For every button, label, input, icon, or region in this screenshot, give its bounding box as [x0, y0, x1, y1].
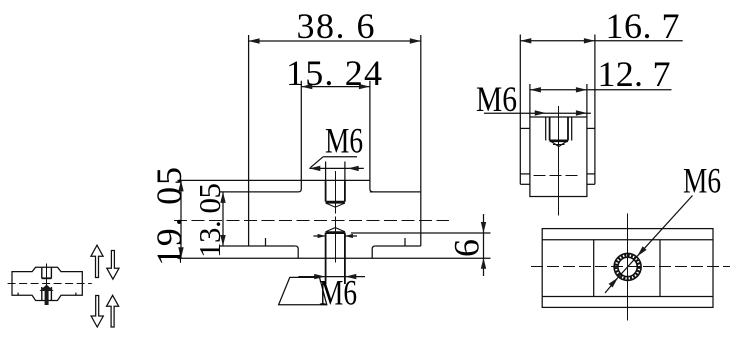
arrow 19.05 top: [178, 180, 183, 191]
bottom strip line: [542, 296, 713, 298]
M6 side left arrow: [535, 110, 546, 115]
12.7 extension / boss edges extended up: [529, 84, 531, 117]
bottom face long line (19.05 ext + boss bottom + 6 ext): [178, 257, 491, 259]
M6 leader upper arrow: [637, 246, 646, 256]
slab left outer edge (16.7 ext above): [519, 35, 521, 185]
arrow 15.24 right: [359, 84, 370, 89]
svg-text:12. 7: 12. 7: [598, 54, 671, 94]
bottom boss left edge with fillet: [295, 246, 298, 258]
svg-text:19. 05: 19. 05: [149, 167, 189, 266]
boss left edge (15.24 extension + fillet): [298, 81, 301, 192]
svg-text:M6: M6: [683, 161, 721, 200]
M6 leader lower tail: [605, 278, 618, 294]
M6 bottom right arrow: [345, 274, 356, 279]
dimension 12.7 line: [530, 89, 672, 91]
side hole drill cone: [550, 141, 568, 147]
M6 top leader slant: [310, 157, 323, 168]
arrow 13.05 top: [220, 192, 225, 203]
horizontal centerline dashed: [531, 266, 730, 268]
mini vertical centerline: [46, 264, 48, 302]
top strip line: [542, 239, 713, 241]
dimension 13.05 vertical line: [222, 192, 224, 246]
svg-text:M6: M6: [319, 273, 357, 312]
slab right outer edge (16.7 ext above): [594, 35, 596, 185]
part outline: slab top left (13.05 extension + slab top): [220, 191, 299, 193]
M6 side right arrow: [576, 110, 587, 115]
slab lip lines: [520, 173, 530, 175]
lip tick left: [265, 238, 267, 246]
top hole centerline: [335, 171, 337, 214]
tapped hole outer circle: [614, 253, 641, 280]
bottom tapped hole M6 (edges extended below part as dim extension): [326, 233, 345, 284]
tapped hole thread texture ring: [616, 255, 639, 278]
arrow 16.7 left: [520, 38, 531, 43]
M6 top dim line: [309, 167, 364, 169]
hollow arrow top-right (down): [107, 251, 119, 280]
bottom hole centerline: [335, 217, 337, 263]
svg-text:M6: M6: [325, 121, 363, 160]
svg-text:M6: M6: [476, 80, 517, 119]
dimension 6: extension line top: [351, 232, 491, 234]
arrow 6 top (outside, pointing down): [481, 222, 486, 233]
arrow 12.7 left: [530, 87, 541, 92]
side view vertical centerline: [558, 106, 560, 216]
svg-text:13. 05: 13. 05: [192, 183, 227, 258]
mini part outline: [12, 267, 82, 300]
M6 top hole extension lines: [325, 162, 327, 181]
part outline: slab top right: [370, 191, 421, 193]
arrow 13.05 bottom: [220, 235, 225, 246]
mini top hole: [41, 267, 43, 278]
arrow 16.7 right: [584, 38, 595, 43]
M6 bottom trapezoid flag: [279, 277, 327, 304]
M6 side leader line: [484, 112, 591, 114]
boss right edge (15.24 extension + fillet): [370, 81, 373, 192]
vertical centerline: [627, 214, 629, 321]
side view tapped hole: [545, 117, 547, 141]
M6 leader lower arrow: [609, 278, 618, 288]
arrow 12.7 right: [576, 87, 587, 92]
svg-text:6: 6: [447, 239, 487, 257]
M6 bottom dim line: [298, 276, 365, 278]
part outline: slab bottom left: [220, 245, 296, 247]
boss edge verticals: [593, 240, 595, 297]
tapped hole inner circle: [618, 257, 637, 276]
lip tick right: [404, 238, 406, 246]
part outline: slab bottom right: [375, 245, 421, 247]
slab bottom shoulders: [520, 183, 530, 185]
mini dashed centerline: [8, 283, 92, 285]
M6 top left arrow: [309, 166, 320, 171]
svg-text:16. 7: 16. 7: [606, 6, 680, 46]
bottom boss right edge with fillet: [372, 246, 375, 258]
hollow arrow bottom-right (up): [107, 295, 119, 327]
arrow 19.05 bottom: [178, 247, 183, 258]
dimension 19.05 vertical line: [180, 180, 182, 258]
mini bottom hole: [41, 287, 43, 301]
M6 top label underline: [323, 156, 357, 158]
arrow 38.6 right: [410, 38, 421, 43]
dimension 16.7 line: [520, 40, 682, 42]
main horizontal centerline (dashed): [174, 220, 449, 222]
top hole drill cone: [326, 203, 345, 207]
dimension 6: vertical dim line: [483, 214, 485, 276]
M6 bottom left arrow: [314, 274, 325, 279]
bottom hole small arrows: [314, 235, 326, 237]
M6 leader upper segment: [637, 196, 692, 257]
arrow 38.6 left: [249, 38, 260, 43]
bottom hole drill cone: [326, 228, 345, 232]
hollow arrow top-left (up): [91, 245, 103, 277]
part outline: top face line (19.05 extension + boss top): [178, 179, 370, 181]
top tapped hole M6: [326, 180, 345, 201]
hollow arrow bottom-left (down): [91, 296, 103, 328]
part outline: left edge (with 38.6 extension above): [248, 35, 250, 246]
outer rectangle: [542, 229, 713, 308]
mini screw arrow (filled): [40, 285, 54, 292]
svg-text:38. 6: 38. 6: [297, 6, 375, 46]
boss rectangle: [530, 117, 587, 197]
M6 top right arrow: [348, 166, 359, 171]
arrow 6 bottom (outside, pointing up): [481, 258, 486, 269]
part outline: right edge (with 38.6 extension above): [420, 35, 422, 246]
arrow 15.24 left: [301, 84, 312, 89]
dimension 38.6 line: [249, 40, 421, 42]
mini lip ticks: [17, 293, 19, 296]
side view horizontal centerline dashed: [534, 175, 581, 177]
svg-text:15. 24: 15. 24: [286, 53, 382, 93]
slab top shoulders: [520, 127, 530, 129]
M6 leader through circle: [618, 256, 637, 277]
dimension 15.24 line: [301, 86, 370, 88]
